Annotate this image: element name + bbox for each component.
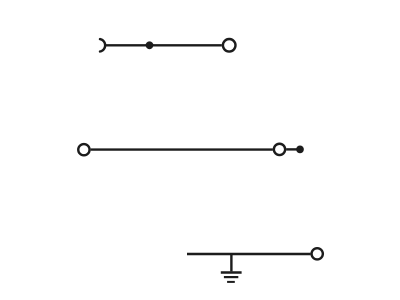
ground bar 1: [221, 271, 242, 274]
terminal circle top right: [223, 39, 236, 52]
junction dot middle rail: [296, 146, 304, 154]
wire bottom rail: [187, 253, 310, 255]
ground bar 3: [227, 281, 235, 283]
wire stub to junction dot: [286, 148, 297, 150]
wire top rail: [106, 44, 222, 46]
junction dot on top rail: [146, 41, 154, 49]
terminal circle middle left: [78, 144, 89, 155]
socket contact (open arc), top level: [100, 39, 105, 51]
ground bar 2: [224, 276, 238, 278]
terminal circle middle right: [274, 144, 285, 155]
wire middle rail: [91, 148, 273, 150]
ground stem wire: [230, 254, 232, 271]
terminal circle bottom right: [312, 248, 323, 259]
